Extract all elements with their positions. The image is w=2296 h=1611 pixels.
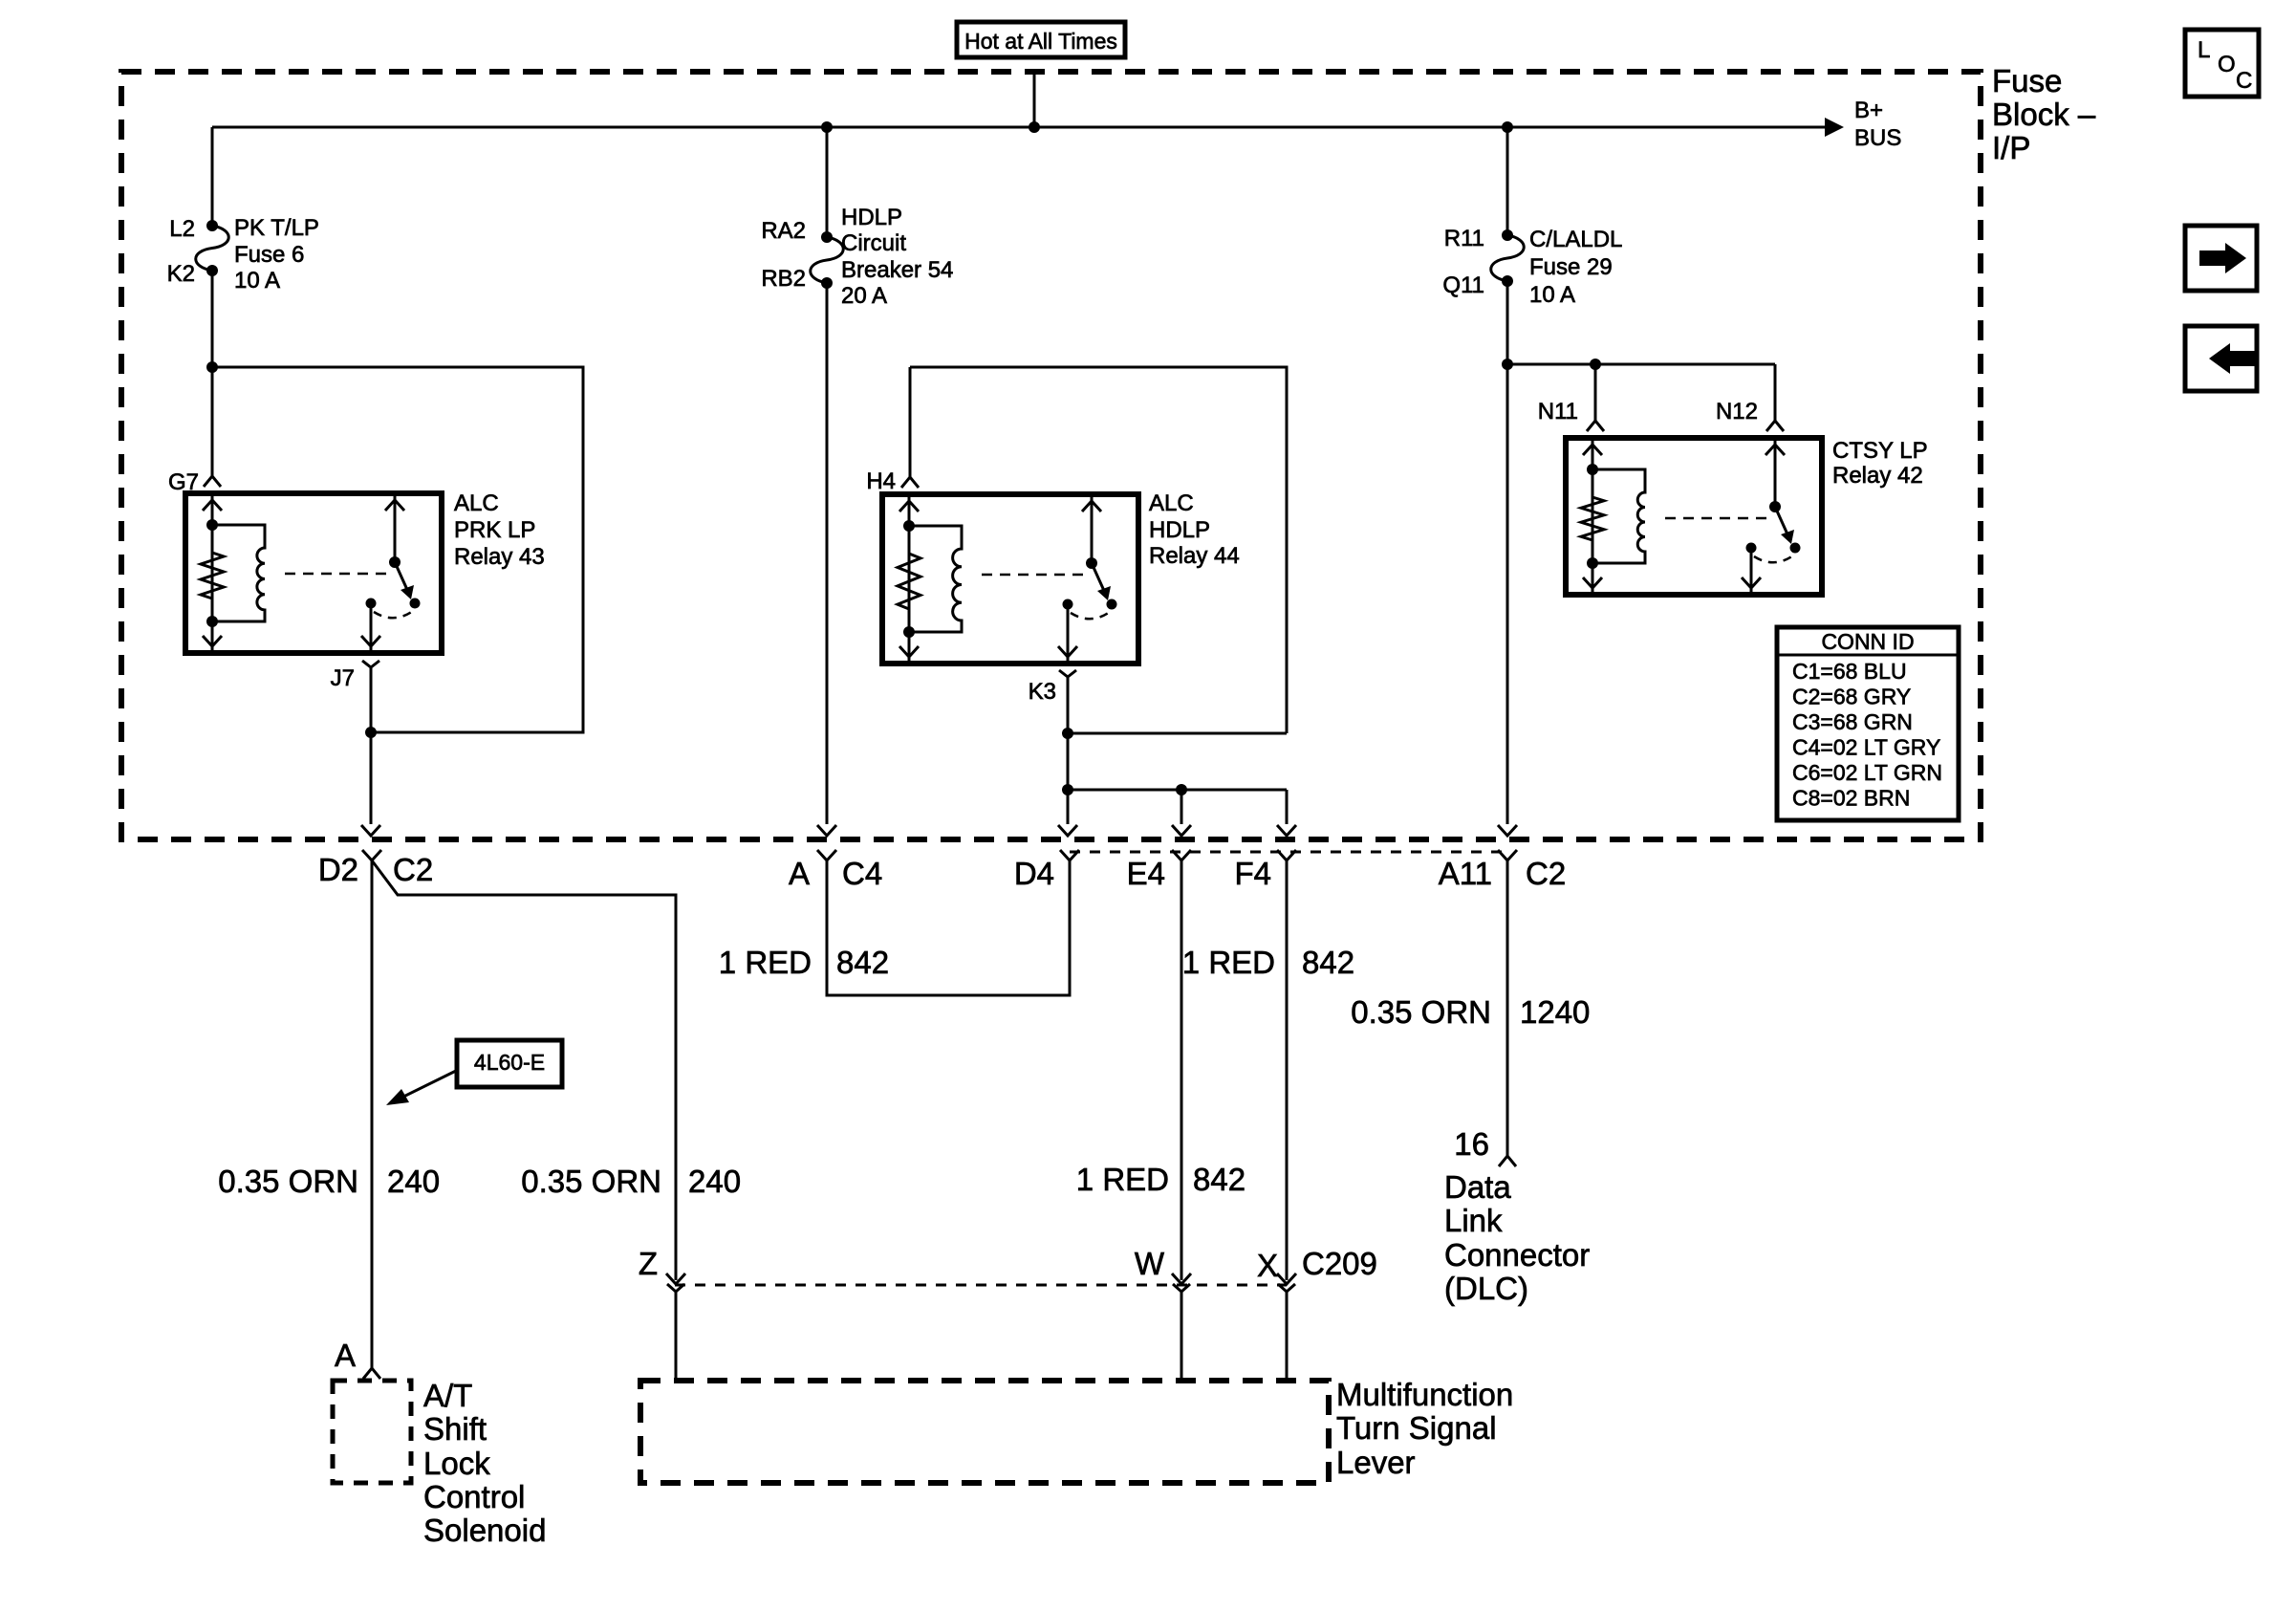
svg-text:4L60-E: 4L60-E <box>474 1050 545 1075</box>
svg-text:I/P: I/P <box>1992 130 2030 165</box>
svg-text:K2: K2 <box>167 261 195 287</box>
svg-text:10 A: 10 A <box>234 268 280 294</box>
svg-text:CONN ID: CONN ID <box>1821 629 1914 654</box>
svg-text:842: 842 <box>1193 1162 1245 1197</box>
svg-text:B+: B+ <box>1854 98 1883 123</box>
svg-text:Lock: Lock <box>423 1446 490 1481</box>
svg-text:ALC: ALC <box>1149 490 1194 516</box>
svg-text:842: 842 <box>836 945 889 980</box>
svg-text:D4: D4 <box>1014 856 1054 891</box>
svg-text:Data: Data <box>1444 1169 1511 1205</box>
svg-text:C: C <box>2236 68 2252 94</box>
svg-text:A: A <box>335 1338 356 1373</box>
svg-text:R11: R11 <box>1444 226 1484 251</box>
svg-text:A/T: A/T <box>423 1378 472 1413</box>
svg-text:O: O <box>2218 52 2236 77</box>
svg-text:842: 842 <box>1302 945 1354 980</box>
svg-text:C2=68 GRY: C2=68 GRY <box>1792 685 1911 709</box>
svg-text:0.35 ORN: 0.35 ORN <box>218 1164 358 1199</box>
svg-text:HDLP: HDLP <box>841 205 902 230</box>
svg-text:C1=68 BLU: C1=68 BLU <box>1792 659 1907 684</box>
svg-text:C8=02 BRN: C8=02 BRN <box>1792 786 1910 811</box>
svg-text:1240: 1240 <box>1520 994 1590 1030</box>
svg-text:Link: Link <box>1444 1203 1503 1238</box>
svg-text:Solenoid: Solenoid <box>423 1513 546 1548</box>
svg-text:J7: J7 <box>331 665 355 691</box>
svg-text:0.35 ORN: 0.35 ORN <box>1351 994 1491 1030</box>
svg-text:Connector: Connector <box>1444 1237 1590 1273</box>
svg-text:Block –: Block – <box>1992 97 2096 132</box>
svg-text:20 A: 20 A <box>841 283 887 309</box>
svg-text:RA2: RA2 <box>761 218 806 244</box>
svg-text:D2: D2 <box>318 852 358 887</box>
svg-text:BUS: BUS <box>1854 125 1901 151</box>
svg-text:Fuse 6: Fuse 6 <box>234 242 304 268</box>
svg-text:C6=02 LT GRN: C6=02 LT GRN <box>1792 760 1942 785</box>
svg-text:0.35 ORN: 0.35 ORN <box>521 1164 661 1199</box>
svg-text:A11: A11 <box>1439 856 1492 891</box>
svg-text:C2: C2 <box>1526 856 1566 891</box>
svg-text:Relay 43: Relay 43 <box>454 544 545 570</box>
svg-text:C3=68 GRN: C3=68 GRN <box>1792 709 1913 734</box>
svg-text:C209: C209 <box>1302 1246 1377 1281</box>
svg-text:CTSY LP: CTSY LP <box>1832 438 1928 464</box>
svg-text:Lever: Lever <box>1336 1445 1416 1480</box>
svg-text:PK T/LP: PK T/LP <box>234 215 319 241</box>
svg-text:Hot at All Times: Hot at All Times <box>964 29 1117 54</box>
svg-text:N12: N12 <box>1716 399 1758 425</box>
svg-text:1 RED: 1 RED <box>719 945 812 980</box>
svg-text:A: A <box>789 856 810 891</box>
svg-text:L2: L2 <box>169 216 195 242</box>
svg-text:RB2: RB2 <box>761 266 806 292</box>
svg-text:10 A: 10 A <box>1529 282 1575 308</box>
svg-text:Fuse: Fuse <box>1992 63 2062 98</box>
svg-text:L: L <box>2198 37 2210 63</box>
svg-text:1 RED: 1 RED <box>1076 1162 1169 1197</box>
svg-text:H4: H4 <box>866 468 896 494</box>
svg-text:Fuse 29: Fuse 29 <box>1529 254 1613 280</box>
svg-text:Multifunction: Multifunction <box>1336 1377 1513 1412</box>
svg-text:16: 16 <box>1454 1126 1489 1162</box>
svg-text:HDLP: HDLP <box>1149 517 1210 543</box>
svg-text:240: 240 <box>387 1164 440 1199</box>
svg-text:W: W <box>1135 1246 1165 1281</box>
svg-text:240: 240 <box>688 1164 741 1199</box>
svg-text:1 RED: 1 RED <box>1182 945 1275 980</box>
svg-text:Shift: Shift <box>423 1411 487 1447</box>
svg-text:N11: N11 <box>1538 399 1578 425</box>
svg-text:PRK LP: PRK LP <box>454 517 535 543</box>
svg-text:Circuit: Circuit <box>841 230 906 256</box>
svg-text:F4: F4 <box>1234 856 1271 891</box>
svg-text:C2: C2 <box>393 852 433 887</box>
svg-text:ALC: ALC <box>454 490 499 516</box>
svg-text:Relay 42: Relay 42 <box>1832 463 1923 489</box>
svg-text:Turn Signal: Turn Signal <box>1336 1410 1497 1446</box>
svg-text:C/LALDL: C/LALDL <box>1529 227 1622 252</box>
svg-text:Breaker 54: Breaker 54 <box>841 257 953 283</box>
svg-text:C4=02 LT GRY: C4=02 LT GRY <box>1792 735 1940 760</box>
svg-text:Relay 44: Relay 44 <box>1149 543 1240 569</box>
svg-text:Q11: Q11 <box>1442 272 1484 298</box>
svg-text:Z: Z <box>639 1246 658 1281</box>
svg-text:(DLC): (DLC) <box>1444 1271 1528 1306</box>
svg-text:Control: Control <box>423 1479 525 1514</box>
svg-text:E4: E4 <box>1127 856 1165 891</box>
svg-text:C4: C4 <box>842 856 882 891</box>
svg-text:X: X <box>1257 1248 1278 1283</box>
svg-text:K3: K3 <box>1029 679 1056 705</box>
